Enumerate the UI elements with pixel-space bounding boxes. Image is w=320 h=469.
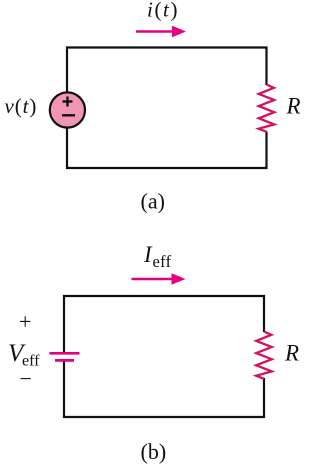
svg-text:R: R: [284, 341, 299, 366]
wire: circuit (b) left lower segment: [63, 362, 65, 419]
svg-text:(b): (b): [141, 439, 167, 464]
current arrow I eff: [132, 273, 186, 284]
wire: circuit (b) left upper segment: [63, 295, 65, 353]
svg-text:(a): (a): [141, 189, 165, 214]
wire: circuit (a) bottom: [66, 167, 268, 169]
svg-text:−: −: [20, 366, 32, 391]
wire: circuit (b) right lower stub: [263, 378, 265, 418]
voltage source v(t): [50, 92, 85, 127]
resistor R (circuit b): [256, 332, 272, 379]
battery V eff: [50, 353, 80, 360]
wire: circuit (a) left lower segment: [66, 127, 68, 169]
current arrow i(t): [136, 26, 186, 37]
svg-text:v(t): v(t): [5, 94, 38, 118]
wire: circuit (a) top: [66, 46, 268, 48]
resistor R (circuit a): [259, 85, 275, 132]
svg-text:i(t): i(t): [147, 0, 179, 22]
svg-text:+: +: [19, 309, 31, 334]
wire: circuit (a) right upper stub: [265, 47, 267, 86]
svg-text:I: I: [143, 242, 153, 267]
svg-text:eff: eff: [153, 252, 172, 271]
wire: circuit (a) right lower stub: [265, 132, 267, 170]
wire: circuit (a) left upper segment: [66, 47, 68, 94]
wire: circuit (b) top: [63, 295, 265, 297]
wire: circuit (b) right upper stub: [263, 295, 265, 332]
svg-text:R: R: [286, 94, 301, 119]
wire: circuit (b) bottom: [63, 416, 265, 418]
